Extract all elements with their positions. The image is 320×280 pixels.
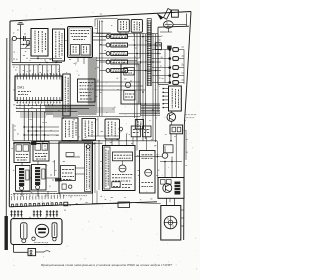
inner board xyxy=(61,166,76,181)
bottom mid wires xyxy=(169,198,171,202)
mid band labels xyxy=(16,107,17,109)
box A10 xyxy=(131,126,140,137)
vertical drops xyxy=(23,106,25,141)
DA1 bottom pins xyxy=(16,97,18,101)
module A6 xyxy=(62,118,78,141)
bundle junction dots xyxy=(134,44,136,46)
module A8 xyxy=(105,119,120,139)
filter box Z1 xyxy=(14,143,30,163)
box A11 xyxy=(143,126,152,137)
module A9 xyxy=(135,120,143,130)
sub box in enclosure xyxy=(155,43,161,50)
module A5 xyxy=(131,20,142,33)
head box xyxy=(172,10,179,17)
diode bus xyxy=(169,50,171,83)
diode VD3 xyxy=(152,67,170,69)
svg-text:Принципиальная схема интеграль: Принципиальная схема интегрального усили… xyxy=(40,263,172,267)
side label xyxy=(186,114,188,116)
svg-text:DA1: DA1 xyxy=(18,86,25,90)
page edge shadow xyxy=(5,38,8,216)
scattered component labels xyxy=(23,55,25,57)
diode VD4 xyxy=(152,75,170,77)
vertical label strip xyxy=(63,74,70,116)
regulator A14 xyxy=(140,151,156,194)
filled horn xyxy=(157,13,164,20)
horizontal links xyxy=(24,126,59,128)
module A3 xyxy=(68,27,93,58)
transformer T1 xyxy=(113,152,133,161)
diode VD1 xyxy=(152,49,170,51)
terminal wires xyxy=(166,198,168,205)
wires from mid boxes down xyxy=(105,139,107,146)
ladder strip dots xyxy=(147,18,151,20)
wire between Z2 and amp xyxy=(54,160,56,176)
caps and text xyxy=(112,174,114,176)
wires around modules xyxy=(21,163,23,166)
bundle labels xyxy=(133,39,135,41)
module A1 xyxy=(31,29,48,57)
preset resistor R6 xyxy=(106,69,110,73)
bus to border xyxy=(183,50,185,85)
highlighted signal path band xyxy=(88,57,97,113)
wires at top xyxy=(95,17,118,20)
vertical label xyxy=(104,147,110,189)
tube element 2 xyxy=(52,223,57,238)
h wires mid xyxy=(78,116,141,118)
caption under amp box xyxy=(63,195,65,197)
output box A15 xyxy=(158,178,184,199)
filter box Z2 xyxy=(33,142,49,162)
edge connector socket bumps xyxy=(12,204,14,207)
wires below DA1 xyxy=(16,105,95,107)
power supply A13 xyxy=(103,146,136,191)
wire risers above DA1 xyxy=(19,65,21,76)
tube element 1 xyxy=(21,223,27,239)
preset resistor R3 xyxy=(106,43,110,47)
small parts xyxy=(62,184,66,189)
frame right xyxy=(184,12,191,241)
module A4 xyxy=(118,19,130,32)
antenna W1 xyxy=(20,25,22,39)
transistor VT6 xyxy=(163,184,172,193)
dark connector blob xyxy=(31,141,36,145)
module A7 xyxy=(82,119,96,141)
speaker box BA1 xyxy=(161,206,181,241)
connector notch xyxy=(64,202,68,206)
IC DA1 xyxy=(15,76,62,101)
pickup head symbol xyxy=(164,9,172,20)
wire xyxy=(173,24,186,26)
pot R10 xyxy=(119,127,123,131)
preset resistor R2 xyxy=(106,35,110,39)
transistor module VT2 xyxy=(32,165,47,191)
side ticks xyxy=(181,209,184,211)
small parts on top xyxy=(161,180,166,185)
plug group XP1 xyxy=(11,210,13,217)
scan speckle xyxy=(92,153,93,154)
DA1 top pins xyxy=(16,76,18,80)
preset resistor R4 xyxy=(106,52,110,56)
wire xyxy=(20,39,22,63)
wires from M1 xyxy=(95,81,141,83)
heatsink xyxy=(175,182,181,195)
vertical label strip xyxy=(85,144,92,192)
cabinet label xyxy=(34,241,36,243)
IC DA2 xyxy=(169,86,182,111)
connector pin ticks xyxy=(11,196,13,200)
rectifier xyxy=(119,165,126,172)
Z2 inner marks xyxy=(44,145,46,147)
motor M1 xyxy=(164,21,174,28)
sub-block A3.2 xyxy=(81,45,90,56)
transistor VT5 xyxy=(167,113,176,122)
plug xyxy=(28,249,36,256)
speaker inside cabinet xyxy=(35,224,48,237)
socket XW1 xyxy=(12,36,16,40)
module A2 xyxy=(53,29,65,61)
fuse box FU1 xyxy=(170,125,183,134)
speaker xyxy=(164,216,177,229)
trim arrow xyxy=(26,43,30,48)
control box M1 xyxy=(78,79,96,102)
frame bottom xyxy=(9,202,157,207)
diode VD2 xyxy=(152,58,170,60)
capacitor C1 xyxy=(23,36,25,41)
transistor module VT1 xyxy=(16,166,31,192)
wires into connector xyxy=(13,193,15,197)
wires into cabinet xyxy=(13,217,15,219)
amplifier module A12 xyxy=(59,142,93,193)
wires from DA2 down xyxy=(170,121,172,125)
frame left xyxy=(8,21,11,207)
left bus xyxy=(99,21,101,117)
wire bundle xyxy=(134,34,136,118)
terminal circle xyxy=(86,145,90,149)
preset resistor R5 xyxy=(106,60,110,64)
bundle bottom ladder xyxy=(141,103,160,105)
tuner box M2 xyxy=(121,64,139,104)
resistor R1 xyxy=(27,41,29,46)
indicator unit box xyxy=(157,27,159,84)
diode VD5 xyxy=(152,82,170,84)
power cord xyxy=(13,245,15,253)
schematic border frame top xyxy=(10,12,191,22)
bus lines under modules xyxy=(12,62,62,64)
sub-block A3.1 xyxy=(71,45,80,56)
junction dots below DA1 xyxy=(23,126,25,128)
wires above output box xyxy=(164,162,166,178)
cabinet A16 xyxy=(11,219,62,245)
